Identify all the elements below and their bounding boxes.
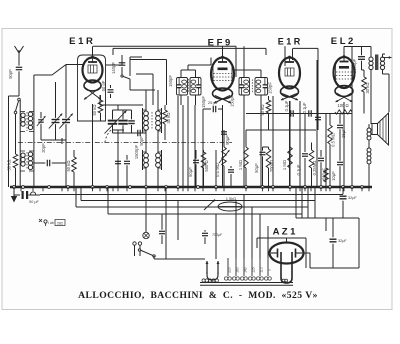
label 500 avc <box>204 160 209 171</box>
wire right verticals <box>296 188 315 218</box>
wire drop v188 <box>187 96 189 187</box>
capacitor 50uF avc <box>193 150 199 187</box>
svg-text:E L 2: E L 2 <box>331 36 354 47</box>
svg-text:160: 160 <box>236 267 240 273</box>
svg-text:0.1μF: 0.1μF <box>296 164 301 175</box>
svg-text:A Z 1: A Z 1 <box>273 227 297 238</box>
core L1-L2 <box>26 112 28 131</box>
label 150pF T2 <box>268 82 273 94</box>
wire plug drops <box>135 252 141 256</box>
svg-text:1500pF: 1500pF <box>134 144 139 159</box>
wire top grid line <box>93 45 236 47</box>
svg-text:50μF: 50μF <box>254 163 259 173</box>
wire lower rail 2 <box>81 187 315 201</box>
wire lower rail 1 <box>40 194 343 196</box>
svg-text:E F 9: E F 9 <box>208 38 231 49</box>
label 30k out <box>365 82 370 93</box>
label 50uF 2 <box>225 135 230 145</box>
svg-text:1 5kΩ: 1 5kΩ <box>226 196 237 201</box>
wire V4 top cap <box>344 47 371 58</box>
wire T1 top <box>181 58 211 71</box>
resistor 0.5M <box>328 114 333 188</box>
ground arrow <box>11 187 17 203</box>
svg-text:500μF: 500μF <box>322 168 327 180</box>
svg-text:0.1μF: 0.1μF <box>302 102 307 113</box>
mains switch <box>138 249 205 259</box>
svg-text:140: 140 <box>244 267 248 273</box>
wire drop v178 <box>177 96 179 187</box>
coil L3 osc <box>20 147 25 187</box>
capacitor 25uF V2 <box>203 106 223 187</box>
wire grid diag <box>52 65 83 76</box>
label tube V2 EF9 <box>208 38 231 49</box>
secondary windings <box>225 258 272 280</box>
capacitor coupling avc <box>221 130 227 143</box>
label 50kOhm agc <box>66 160 71 171</box>
coil field <box>367 145 371 187</box>
label 50uF avc <box>188 167 193 177</box>
variable capacitor gang B <box>118 110 128 133</box>
wire nested osc feed <box>130 60 167 106</box>
label 1.5k <box>226 196 237 201</box>
svg-text:50 kΩ: 50 kΩ <box>66 160 71 171</box>
wire right box <box>310 218 359 268</box>
label 0.25M <box>312 161 317 176</box>
svg-text:0: 0 <box>268 269 272 271</box>
mains prong 1 <box>206 261 209 274</box>
wire det mid <box>246 100 316 143</box>
capacitor 50pF V1 <box>108 85 114 98</box>
paper sheet <box>2 29 392 310</box>
svg-text:E 1 R: E 1 R <box>278 37 301 47</box>
label 32uF a <box>348 196 357 200</box>
wire V1 plate <box>106 55 123 65</box>
svg-text:110: 110 <box>260 267 264 273</box>
resistor 50k screen <box>266 96 271 130</box>
label 50uF filter <box>29 200 39 204</box>
label 20pF <box>41 143 46 153</box>
variable capacitor gang A <box>108 110 118 133</box>
label 5000pF <box>352 58 357 73</box>
capacitor 8uF <box>159 214 165 244</box>
IF transformer T2 primary box <box>239 46 250 187</box>
svg-text:E 1 R: E 1 R <box>69 36 93 47</box>
resistor 0.25M grid <box>309 143 314 188</box>
resistor 100 EL2 <box>335 110 352 114</box>
label tube V5 AZ1 <box>273 227 297 238</box>
capacitor 0.05 osc <box>123 110 135 133</box>
svg-text:1 MΩ: 1 MΩ <box>282 160 287 170</box>
capacitor 32uF a <box>340 187 347 218</box>
variable capacitor CV1 <box>49 82 63 140</box>
label 150pF T1b <box>201 96 206 108</box>
capacitor 50uF filter <box>14 191 40 199</box>
tube V1 E1R (mixer) <box>83 56 103 100</box>
label 50pF V1 <box>101 80 106 91</box>
svg-text:220: 220 <box>228 267 232 273</box>
core T2 <box>251 80 253 94</box>
coil L1 antenna primary <box>20 107 25 136</box>
arrow tuning gang <box>105 111 127 134</box>
resistor 30k left <box>13 154 18 187</box>
potentiometer 25k volume <box>219 143 230 188</box>
coil L5 osc primary <box>143 90 149 140</box>
label 25uF cath <box>341 128 346 138</box>
mains plug <box>133 242 142 252</box>
wire transformer top <box>0 0 1 1</box>
wire padder top <box>113 105 124 110</box>
svg-text:ALLOCCHIO, BACCHINI & C. -: ALLOCCHIO, BACCHINI & C. - MOD. «525 V» <box>78 290 318 301</box>
capacitor 0.1uF coupling2 <box>309 110 311 117</box>
wire v66 to bus <box>65 140 67 187</box>
svg-text:500 Ω: 500 Ω <box>204 160 209 171</box>
wire drop v300 <box>299 101 301 187</box>
svg-text:2000Ω: 2000Ω <box>269 160 274 172</box>
capacitor 50pF antenna <box>16 62 23 96</box>
capacitor 500uF tone <box>318 150 324 187</box>
wire coil bottoms <box>20 136 66 147</box>
svg-text:20pF: 20pF <box>41 143 46 153</box>
resistor 30k out <box>362 70 367 114</box>
svg-text:0.1μF: 0.1μF <box>284 100 289 111</box>
svg-text:100 Ω: 100 Ω <box>337 103 348 108</box>
wire mid horizontals <box>100 90 155 105</box>
svg-text:30 kΩ: 30 kΩ <box>166 112 171 123</box>
IF transformer T2 secondary box <box>255 70 268 100</box>
svg-text:700μF: 700μF <box>212 233 223 237</box>
label 50k screen <box>260 104 265 115</box>
svg-text:282: 282 <box>57 221 63 225</box>
wire osc mix <box>113 130 147 146</box>
label tube V4 EL2 <box>331 36 354 47</box>
capacitor osc pad <box>112 130 124 187</box>
capacitor 0.1uF coupling <box>291 110 293 117</box>
resistor 500 cath <box>324 165 329 187</box>
label 10uF <box>331 171 336 181</box>
capacitor 700uF <box>202 230 223 244</box>
label 50pF <box>8 69 13 79</box>
svg-text:5000pF: 5000pF <box>352 58 357 73</box>
wire V2 top cap loop <box>223 46 237 77</box>
shield box around V1 <box>78 55 106 121</box>
svg-text:25 μF: 25 μF <box>208 100 219 105</box>
svg-text:125: 125 <box>252 267 256 273</box>
svg-text:25μF: 25μF <box>341 128 346 138</box>
svg-text:50μF: 50μF <box>188 167 193 177</box>
wire T2 top <box>234 69 261 71</box>
capacitor 25uF cath <box>337 114 343 141</box>
wire V3 grid lead <box>284 46 286 66</box>
capacitor 0.1 el2 grid <box>315 114 321 125</box>
mains prong 2 <box>217 261 220 274</box>
trimmer C-ant <box>37 112 46 140</box>
wire drop v183 <box>182 105 184 187</box>
wire drop v273 <box>272 96 274 187</box>
secondary labels <box>228 267 272 273</box>
svg-text:150μF: 150μF <box>230 95 235 107</box>
capacitor 50uF pot <box>228 166 234 187</box>
wire out right <box>351 47 353 188</box>
IF transformer T1 primary box <box>177 70 188 105</box>
label 2000 <box>269 160 274 172</box>
box 282 <box>55 220 65 226</box>
primary U <box>202 272 218 282</box>
svg-text:150pF: 150pF <box>201 96 206 108</box>
resistor 50k agc <box>72 150 77 187</box>
tube V4 EL2 (output) <box>334 55 355 102</box>
capacitor 1500pF <box>124 155 130 187</box>
wire drop v216 <box>215 150 217 187</box>
chassis bus <box>10 186 372 189</box>
coil L7 padder pri <box>143 140 149 187</box>
label 0.1uF c2 <box>302 102 307 113</box>
svg-text:150pF: 150pF <box>268 82 273 94</box>
wire drop v195 <box>194 105 196 187</box>
wire top grid line 3 <box>293 48 318 130</box>
wire grid V1 node <box>0 0 1 1</box>
label 500uF <box>322 168 327 180</box>
coil L6 osc secondary <box>156 90 162 140</box>
resistor 1M af <box>288 143 293 188</box>
label tube V1 E1R <box>69 36 93 47</box>
IF transformer T1 secondary box <box>190 70 201 105</box>
svg-text:140pF: 140pF <box>111 62 116 74</box>
svg-text:50pF: 50pF <box>139 136 144 146</box>
svg-text:50pF: 50pF <box>8 69 13 79</box>
wire ot sec <box>383 70 390 113</box>
dash link to AVC <box>105 130 111 142</box>
wire AZ1 top <box>257 238 306 268</box>
svg-text:30 kΩ: 30 kΩ <box>7 159 12 170</box>
wire AZ1 out <box>304 253 311 268</box>
AVC dash-dot line <box>18 142 232 144</box>
wire avc left <box>9 96 20 187</box>
label 1M af <box>282 160 287 170</box>
phono mark <box>39 219 54 226</box>
resistor 1M det <box>244 143 249 188</box>
label 30kOhm <box>7 159 12 170</box>
wire drop v317 <box>316 60 318 187</box>
capacitor 10uF <box>337 140 343 187</box>
wire az1 bottom <box>0 0 1 1</box>
label 0.5M <box>331 133 336 147</box>
label 150uF V2 <box>230 95 235 107</box>
switch wave-change <box>14 98 20 154</box>
svg-text:10μF: 10μF <box>331 171 336 181</box>
capacitor 140pF top <box>119 55 126 72</box>
wire drop v326 <box>325 113 327 187</box>
wire af line <box>246 113 352 115</box>
resistor 30k osc <box>163 105 168 140</box>
label tube V3 E1R <box>278 37 301 47</box>
label 25uF <box>208 100 219 105</box>
caption text <box>78 290 318 301</box>
label 1500pF <box>134 144 139 159</box>
svg-text:30 kΩ: 30 kΩ <box>365 82 370 93</box>
core L3-L4 <box>26 152 28 170</box>
wire drop v261 <box>260 100 262 187</box>
wire bottom mid verticals <box>166 187 216 259</box>
arrow speaker feed <box>383 56 392 59</box>
svg-text:150pF: 150pF <box>168 75 173 87</box>
wire hop <box>31 192 36 195</box>
label 30k osc <box>166 112 171 123</box>
svg-text:32μF: 32μF <box>338 239 347 243</box>
wire drop v290 <box>289 101 291 187</box>
core T1 <box>187 79 189 93</box>
core L5-L6 <box>151 112 153 130</box>
label 150pF T1a <box>168 75 173 87</box>
label 1M det <box>238 160 243 170</box>
pilot lamp <box>143 187 149 239</box>
svg-text:0.25MΩ: 0.25MΩ <box>312 161 317 176</box>
label 50uF det <box>254 163 259 173</box>
label 25k vol <box>215 163 220 177</box>
wire V3 top cap <box>292 48 294 60</box>
wire transformer drops <box>236 195 268 259</box>
tube V2 EF9 (IF amp) <box>211 56 234 104</box>
wire coil tops <box>20 75 52 107</box>
wire top grid line 2 <box>113 48 266 55</box>
coil voice <box>367 124 371 145</box>
wire lower rail 3 <box>76 187 308 207</box>
arrow tone <box>204 200 215 211</box>
tube V5 AZ1 rectifier <box>270 243 304 284</box>
label 32uF b <box>338 239 347 243</box>
wire 5000pF drop <box>361 47 363 55</box>
svg-text:0.5 MΩ: 0.5 MΩ <box>215 163 220 177</box>
resistor 50k V1 cathode <box>98 95 103 121</box>
bus junction stubs <box>21 187 369 191</box>
wire drop v92 <box>92 104 94 187</box>
capacitor 50uF det <box>260 147 266 187</box>
label 140pF <box>111 62 116 74</box>
label 100 Ohm <box>337 103 348 108</box>
transformer core <box>200 283 293 286</box>
wire drop v352 <box>351 47 353 188</box>
output transformer T3 <box>369 54 385 124</box>
svg-text:50 pF: 50 pF <box>101 80 106 91</box>
resistor 500 avc <box>201 150 206 187</box>
loudspeaker <box>372 113 389 145</box>
bus junction dots <box>13 186 364 189</box>
wire osc vertical <box>130 57 142 76</box>
svg-text:32μF: 32μF <box>348 196 357 200</box>
antenna <box>15 46 24 62</box>
svg-text:1 MΩ: 1 MΩ <box>238 160 243 170</box>
coil L4 osc <box>28 147 34 187</box>
svg-text:0.5 MΩ: 0.5 MΩ <box>331 133 336 147</box>
capacitor 32uF b <box>330 218 337 268</box>
capacitor padder left <box>34 140 66 166</box>
label 50k V1 <box>92 104 97 115</box>
label 0.1uF coupling <box>284 100 289 111</box>
variable capacitor CV2 <box>59 65 73 141</box>
resistor 2000 det <box>263 147 271 187</box>
coil L8 padder sec <box>156 140 162 187</box>
wire V2 down <box>222 105 224 109</box>
wire drop v289 <box>289 101 291 187</box>
resistor 1.5k ballast <box>218 202 242 211</box>
capacitor 0.1uF af <box>302 114 308 188</box>
tube V3 E1R (detector) <box>279 56 300 101</box>
label 0.1uF af <box>296 164 301 175</box>
wire right top rail <box>296 217 359 219</box>
svg-text:50 μF: 50 μF <box>29 200 39 204</box>
wire V1 top cap <box>92 46 94 57</box>
switch band 2 <box>121 72 130 90</box>
wire v62 to bus <box>61 138 63 144</box>
svg-text:50μF: 50μF <box>225 135 230 145</box>
svg-text:, i ab: , i ab <box>46 221 54 225</box>
wire v118 below gang <box>117 133 119 187</box>
wire lower rail 4 <box>108 187 302 214</box>
wire drop v344 <box>343 102 345 187</box>
wire drop v222 <box>222 109 224 187</box>
coil L2 antenna secondary <box>28 107 34 136</box>
capacitor 5000pF out <box>358 54 365 70</box>
